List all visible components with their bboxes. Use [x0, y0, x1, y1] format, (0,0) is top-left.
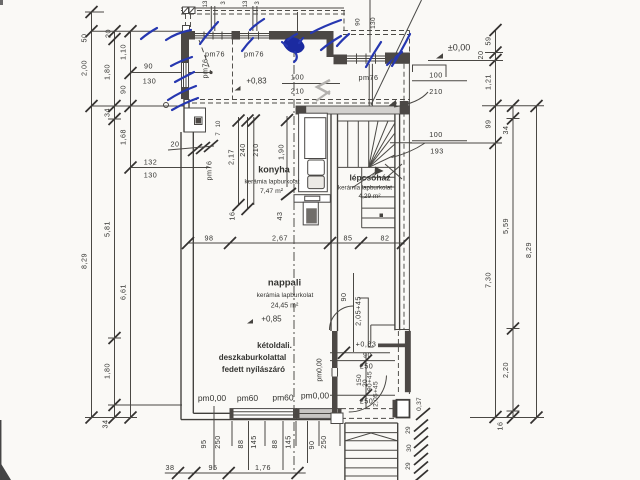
- svg-text:pm76: pm76: [201, 59, 210, 79]
- stairwell top wall: [296, 106, 409, 114]
- svg-text:16: 16: [496, 422, 505, 431]
- top wall step down vertical: [327, 40, 334, 58]
- chain D ticks: [490, 24, 502, 423]
- svg-text:pm60: pm60: [237, 393, 259, 403]
- svg-text:2,67: 2,67: [272, 234, 288, 243]
- right outer wall line: [408, 64, 410, 394]
- roof overhang dashed lines over porch: [343, 30, 410, 32]
- svg-text:82: 82: [381, 234, 390, 243]
- svg-text:90: 90: [119, 85, 128, 94]
- svg-text:250: 250: [360, 362, 374, 371]
- svg-text:193: 193: [430, 147, 444, 156]
- chain C ticks: [125, 25, 137, 423]
- svg-text:13: 13: [243, 0, 249, 7]
- corner pillar bottom right: [393, 400, 398, 418]
- svg-text:2,05+45: 2,05+45: [354, 296, 363, 326]
- svg-text:145: 145: [284, 435, 293, 449]
- svg-text:85: 85: [344, 234, 353, 243]
- svg-text:240: 240: [238, 143, 247, 157]
- small corner boxes with x: [183, 7, 189, 14]
- fridge cabinet: [305, 118, 326, 159]
- interior width dim line: [188, 242, 403, 244]
- bottom window F1: [230, 409, 297, 419]
- svg-text:20: 20: [476, 51, 485, 60]
- svg-text:+0,83: +0,83: [356, 340, 377, 349]
- pencil chevron mark: [317, 80, 330, 94]
- svg-text:98: 98: [205, 234, 214, 243]
- door dim ext line: [353, 273, 355, 352]
- right inner dashed line: [403, 64, 405, 330]
- svg-text:nappali: nappali: [268, 278, 301, 289]
- svg-text:29: 29: [405, 462, 412, 470]
- shelf bar: [294, 195, 330, 203]
- svg-text:130: 130: [143, 77, 157, 86]
- svg-text:34: 34: [101, 420, 110, 429]
- top wall long dark segment: [269, 31, 334, 40]
- dimension chain E x=513: [512, 106, 514, 418]
- svg-text:pm0,00: pm0,00: [198, 393, 227, 403]
- outdoor stairs outline: [344, 423, 346, 480]
- svg-text:130: 130: [144, 171, 158, 180]
- interior wall H1 dark: [378, 344, 408, 348]
- stairwell left wall: [330, 114, 332, 331]
- svg-text:250: 250: [319, 435, 328, 449]
- stair top edge: [338, 120, 395, 122]
- svg-text:fedett nyílászáró: fedett nyílászáró: [222, 365, 285, 374]
- chain F ticks: [531, 100, 543, 424]
- terrace boundary dashed double: [184, 99, 410, 101]
- svg-text:7,30: 7,30: [484, 272, 493, 288]
- pm76 leader dashed: [199, 40, 211, 71]
- svg-text:38: 38: [166, 463, 175, 472]
- svg-text:kétoldali.: kétoldali.: [257, 341, 292, 350]
- scan corner artifacts: [0, 462, 11, 480]
- stairwell right wall: [394, 114, 396, 330]
- stair winder fan: [369, 121, 378, 167]
- section dash-dot line: [293, 31, 295, 470]
- svg-text:2,05+45: 2,05+45: [373, 381, 380, 407]
- window W1 in left wall: [182, 63, 189, 88]
- svg-text:95: 95: [209, 463, 218, 472]
- svg-text:130: 130: [370, 17, 377, 29]
- svg-text:2,17: 2,17: [227, 149, 236, 165]
- blue pen strokes left wall: [171, 57, 192, 66]
- svg-text:pm76: pm76: [205, 50, 225, 59]
- svg-text:8,29: 8,29: [80, 253, 89, 269]
- svg-text:16: 16: [228, 212, 237, 221]
- blue pen stroke top wall right: [311, 20, 341, 33]
- svg-text:20: 20: [104, 29, 113, 38]
- svg-text:kerámia lapburkolat: kerámia lapburkolat: [338, 185, 392, 192]
- svg-text:90: 90: [307, 441, 316, 450]
- svg-text:7,47 m²: 7,47 m²: [260, 188, 284, 195]
- svg-text:1,10: 1,10: [119, 44, 128, 60]
- svg-text:1,21: 1,21: [484, 74, 493, 90]
- svg-text:lépcsőház: lépcsőház: [349, 173, 390, 183]
- roof overhang dashed lines top-left: [181, 7, 344, 9]
- svg-text:88: 88: [270, 440, 279, 449]
- tread arrow V: [345, 433, 371, 441]
- entry leader arrowhead: [389, 100, 397, 106]
- stove block: [303, 202, 318, 225]
- bottom extension lines: [213, 406, 215, 470]
- svg-text:43: 43: [275, 212, 284, 221]
- entry door leaf: [400, 101, 409, 107]
- chain A ticks: [86, 6, 98, 424]
- dashed stair wall extension: [397, 331, 399, 394]
- svg-text:24,45 m²: 24,45 m²: [271, 303, 299, 310]
- dimension chain A x=91.5: [91, 12, 93, 418]
- bottom right door swing: [349, 376, 387, 413]
- dimension chain C x=130.5: [130, 31, 132, 417]
- sink bowl 2: [308, 176, 325, 189]
- nappali east door wall line: [353, 273, 355, 350]
- svg-text:5,81: 5,81: [103, 221, 112, 237]
- left wall upper dark: [181, 31, 189, 63]
- blue pen stroke window1 right: [250, 19, 264, 30]
- pencil diagonal line: [371, 0, 422, 105]
- svg-text:pm76: pm76: [359, 73, 379, 82]
- svg-text:20: 20: [171, 140, 180, 149]
- blue pen stroke top-left corner: [166, 30, 191, 40]
- blue ink blob: [283, 37, 305, 53]
- bottom total dim line: [165, 472, 306, 474]
- svg-text:99: 99: [484, 120, 493, 129]
- svg-text:5,59: 5,59: [501, 218, 510, 234]
- right wall dark bar lower: [405, 331, 411, 392]
- svg-text:pm60: pm60: [272, 393, 294, 403]
- svg-text:pm0,00: pm0,00: [317, 358, 324, 381]
- kitchen counter outline: [299, 113, 328, 192]
- top wall corner pier: [181, 31, 195, 40]
- svg-text:+0,85: +0,85: [261, 315, 282, 324]
- svg-text:0,37: 0,37: [416, 397, 423, 411]
- bottom open corner dashed: [341, 408, 397, 410]
- svg-text:29: 29: [405, 426, 412, 434]
- stair landing line: [338, 166, 395, 168]
- blue pen stroke far left: [141, 28, 157, 39]
- blue pen strokes entry area: [366, 42, 381, 67]
- svg-text:210: 210: [291, 87, 305, 96]
- entry door jamb lines: [368, 64, 370, 106]
- svg-text:100: 100: [429, 71, 443, 80]
- wall end block below V1: [331, 413, 343, 424]
- step level ticks column: [414, 408, 430, 480]
- svg-text:pm0,00: pm0,00: [301, 391, 330, 401]
- svg-text:50: 50: [80, 34, 89, 43]
- svg-text:90: 90: [363, 351, 372, 360]
- svg-text:132: 132: [144, 158, 158, 167]
- svg-text:30: 30: [406, 444, 413, 452]
- svg-text:1,80: 1,80: [103, 64, 112, 80]
- svg-text:210: 210: [251, 143, 260, 157]
- svg-text:13: 13: [203, 0, 209, 7]
- svg-text:2,20: 2,20: [501, 362, 510, 378]
- top extension lines: [210, 6, 212, 31]
- svg-text:90: 90: [144, 62, 153, 71]
- top wall right pier + corner: [385, 53, 410, 64]
- left wall dark below window: [181, 88, 189, 100]
- dimension chain D x=495.5: [495, 30, 497, 417]
- window1 top wall glazing: [195, 33, 232, 35]
- nappali east door swing: [330, 306, 354, 330]
- svg-text:deszkaburkolattal: deszkaburkolattal: [219, 353, 287, 362]
- svg-text:konyha: konyha: [258, 165, 291, 175]
- svg-text:pm76: pm76: [244, 50, 264, 59]
- right connector lines: [485, 52, 503, 54]
- stair treads upper flight: [347, 121, 349, 167]
- left wall lower double line: [180, 132, 182, 420]
- svg-text:2,00: 2,00: [80, 60, 89, 76]
- svg-text:88: 88: [236, 440, 245, 449]
- stair treads lower flight: [362, 176, 395, 178]
- svg-text:59: 59: [484, 37, 493, 46]
- chimney block left: [184, 108, 206, 132]
- top wall step horizontal piece: [334, 55, 348, 65]
- svg-text:6,61: 6,61: [119, 284, 128, 300]
- svg-text:4,29 m²: 4,29 m²: [358, 193, 381, 200]
- window2 top wall glazing: [240, 33, 269, 35]
- stair direction arrow: [352, 171, 378, 189]
- svg-text:pm76: pm76: [205, 161, 214, 181]
- svg-text:1,80: 1,80: [103, 363, 112, 379]
- svg-text:250: 250: [213, 435, 222, 449]
- recess outline right of nappali: [370, 325, 372, 344]
- chain B ticks: [109, 25, 121, 423]
- svg-text:34: 34: [501, 126, 510, 135]
- svg-text:90: 90: [355, 18, 362, 26]
- svg-text:1,76: 1,76: [255, 463, 271, 472]
- svg-text:90: 90: [339, 293, 348, 302]
- chain E ticks: [507, 100, 519, 424]
- dimension chain F x=536.5: [536, 106, 538, 418]
- svg-text:34: 34: [103, 108, 112, 117]
- bottom wall solid segment: [181, 419, 343, 421]
- blue pen stroke pier: [242, 38, 253, 51]
- svg-text:1,68: 1,68: [119, 129, 128, 145]
- svg-text:kerámia lapburkolat: kerámia lapburkolat: [257, 292, 314, 299]
- bottom door F2: [297, 409, 342, 419]
- lower right dim lines: [330, 352, 390, 354]
- svg-text:95: 95: [199, 440, 208, 449]
- svg-text:210: 210: [429, 87, 443, 96]
- svg-text:kerámia lapburkolat: kerámia lapburkolat: [245, 179, 300, 186]
- svg-text:100: 100: [429, 130, 443, 139]
- sink bowl 1: [308, 160, 325, 175]
- svg-text:1,90: 1,90: [277, 144, 286, 160]
- svg-text:8,29: 8,29: [524, 242, 533, 258]
- outdoor stair treads: [345, 432, 398, 434]
- svg-text:145: 145: [249, 435, 258, 449]
- newel dot: [380, 214, 384, 218]
- window3 entry glazing: [347, 55, 385, 57]
- kitchen dim lines: [238, 117, 240, 205]
- dimension chain B x=114.5: [114, 31, 116, 417]
- interior wall V1 dark: [332, 331, 338, 368]
- svg-text:±0,00: ±0,00: [448, 43, 470, 53]
- svg-text:+0,83: +0,83: [246, 77, 267, 86]
- svg-text:250: 250: [360, 397, 374, 406]
- svg-text:100: 100: [291, 73, 305, 82]
- downspout circle: [164, 103, 169, 108]
- blue pen stroke window1: [200, 22, 218, 44]
- left connector lines: [85, 11, 104, 13]
- top wall mid pier: [232, 31, 241, 40]
- svg-text:10: 10: [216, 120, 222, 127]
- bracket leader: [359, 298, 374, 347]
